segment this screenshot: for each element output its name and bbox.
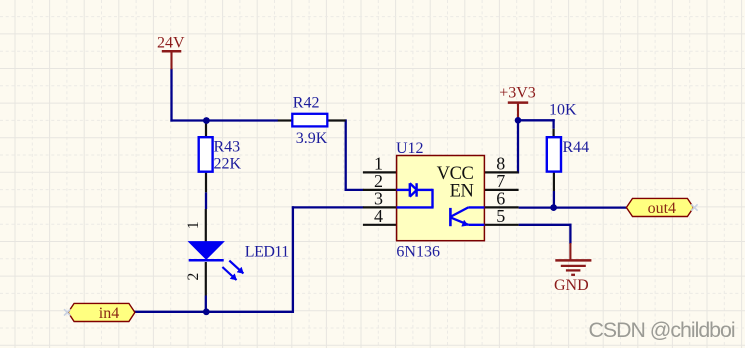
svg-text:CSDN @childboi: CSDN @childboi [589, 318, 735, 342]
svg-text:5: 5 [496, 206, 505, 226]
svg-text:LED11: LED11 [245, 244, 290, 261]
svg-text:24V: 24V [157, 34, 185, 51]
svg-text:GND: GND [554, 277, 589, 294]
svg-text:22K: 22K [214, 155, 242, 172]
svg-text:6N136: 6N136 [396, 243, 440, 260]
svg-text:+3V3: +3V3 [499, 84, 536, 101]
svg-text:EN: EN [450, 181, 474, 201]
svg-text:10K: 10K [549, 102, 577, 119]
svg-text:out4: out4 [648, 200, 676, 217]
svg-text:R44: R44 [563, 139, 590, 156]
svg-text:4: 4 [374, 206, 383, 226]
svg-text:U12: U12 [396, 140, 424, 157]
svg-text:2: 2 [185, 273, 202, 281]
svg-text:1: 1 [185, 221, 202, 229]
svg-text:in4: in4 [99, 305, 119, 322]
svg-text:3.9K: 3.9K [296, 130, 328, 147]
svg-text:R43: R43 [214, 139, 241, 156]
svg-text:R42: R42 [293, 94, 320, 111]
